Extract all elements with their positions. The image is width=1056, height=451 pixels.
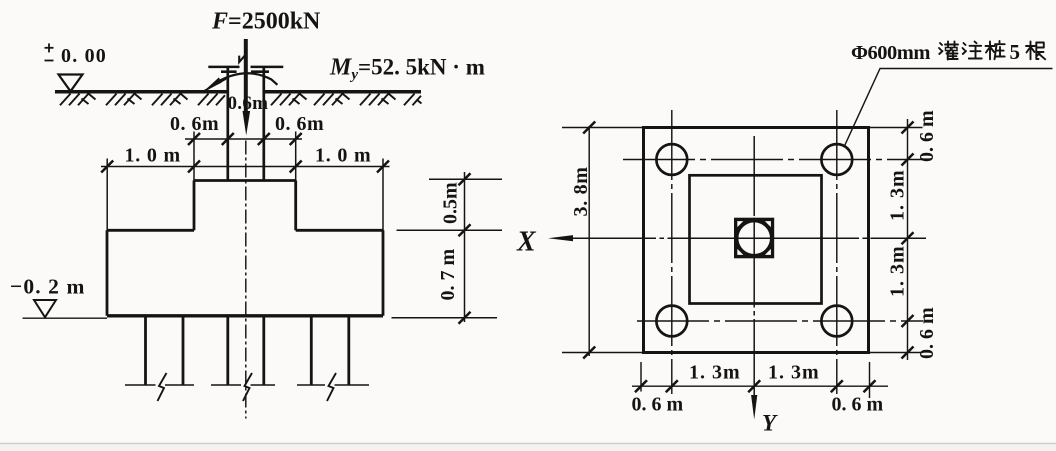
pile P2 right line — [262, 316, 265, 385]
X axis arrowhead — [548, 235, 573, 241]
pile column centerline left — [671, 110, 673, 394]
label Phi600mm pile note — [851, 40, 1020, 64]
pile row centerline bottom — [637, 320, 923, 322]
dims left figure — [101, 132, 390, 232]
hatch group — [60, 94, 71, 106]
pile row centerline top — [623, 159, 923, 161]
elevation triangle -0.2m — [34, 300, 56, 317]
svg-text:1. 3m: 1. 3m — [887, 245, 909, 297]
svg-text:0. 6m: 0. 6m — [275, 113, 324, 135]
svg-text:0. 6m: 0. 6m — [170, 113, 219, 135]
moment arc My — [216, 73, 278, 85]
pile P3 break line — [297, 384, 369, 386]
ground level line -0.2m — [23, 317, 108, 319]
hanzi zhuang — [986, 41, 1005, 59]
column corner chamfer BR — [765, 249, 771, 255]
column left line — [226, 67, 229, 181]
dim line 1.0m row — [101, 166, 390, 168]
extension pedestal left — [193, 132, 195, 182]
pedestal left side — [193, 181, 196, 231]
pile P1 left line — [144, 316, 147, 385]
ext top — [562, 127, 644, 129]
center line elevation — [245, 141, 247, 419]
svg-text:F=2500kN: F=2500kN — [211, 9, 321, 35]
center crosshair vertical — [753, 218, 755, 259]
svg-text:1. 3m: 1. 3m — [689, 362, 741, 384]
column top crossbar left — [221, 70, 237, 73]
center crosshair horizontal — [734, 237, 774, 239]
ext bottom-right — [869, 362, 871, 398]
pedestal and cap — [107, 181, 383, 316]
pile P3 break zigzag — [327, 373, 336, 401]
column corner chamfer TR — [765, 221, 771, 227]
leader underline — [880, 68, 1053, 70]
break mark on force line — [239, 55, 245, 62]
column corner chamfer TL — [737, 221, 743, 227]
pile P2 break zigzag — [243, 373, 252, 401]
svg-text:1. 0 m: 1. 0 m — [315, 145, 371, 167]
svg-text:Φ600mm: Φ600mm — [851, 42, 930, 64]
svg-text:1. 3m: 1. 3m — [887, 169, 909, 221]
ticks dim 0.6m — [188, 133, 200, 145]
svg-text:1. 0 m: 1. 0 m — [125, 145, 181, 167]
ground hatching — [60, 94, 422, 106]
elevation triangle — [59, 75, 83, 92]
ext bottom right — [869, 352, 923, 354]
svg-text:0. 7 m: 0. 7 m — [437, 249, 459, 301]
pile cap outline (plan) — [644, 128, 869, 353]
pile circle bottom-right — [821, 306, 852, 337]
dim line right — [907, 119, 909, 360]
svg-text:0. 00: 0. 00 — [61, 45, 107, 67]
force line — [244, 39, 248, 116]
column top T-bar right — [251, 66, 284, 69]
ext bottom-left — [640, 362, 642, 392]
ext bottom — [562, 352, 644, 354]
column corner chamfer BL — [737, 249, 743, 255]
svg-text:0. 6 m: 0. 6 m — [832, 394, 884, 416]
column top T-bar left — [208, 66, 239, 69]
hatch group — [271, 94, 282, 106]
hatch group — [106, 94, 117, 106]
cap upper step outline (plan) — [690, 175, 822, 303]
force arrowhead — [243, 111, 251, 136]
right side dims 0.5m / 0.7m — [392, 172, 503, 322]
elevation mark ±0.00 — [45, 43, 54, 60]
pile P1 break zigzag — [158, 373, 167, 401]
pedestal right side — [294, 181, 297, 231]
pile circle top-left — [656, 144, 687, 175]
pile P3 left line — [310, 316, 313, 385]
extension cap left — [106, 159, 108, 232]
hatch group — [314, 94, 325, 106]
column top crossbar right — [251, 70, 269, 73]
cap top right — [296, 229, 383, 232]
svg-text:3. 8m: 3. 8m — [570, 166, 592, 216]
pile circle top-right — [821, 144, 852, 175]
leader line to pile — [844, 69, 880, 148]
cap right side — [382, 230, 385, 315]
extension pedestal right — [295, 132, 297, 182]
cap top left — [107, 229, 194, 232]
svg-text:0. 6 m: 0. 6 m — [632, 394, 684, 416]
Y axis arrowhead — [751, 395, 757, 420]
svg-text:−0. 2 m: −0. 2 m — [10, 275, 86, 299]
pedestal top — [194, 179, 296, 182]
pile P1 break line — [125, 384, 194, 386]
pile P2 left line — [226, 316, 229, 385]
moment arrowhead — [204, 77, 222, 91]
ground line left — [55, 90, 228, 94]
svg-text:My=52. 5kN · m: My=52. 5kN · m — [329, 55, 485, 84]
moment arrow tail — [203, 79, 227, 92]
pile circle bottom-left — [656, 306, 687, 337]
hatch group — [152, 94, 163, 106]
center pile circle (white) — [738, 222, 770, 254]
svg-text:0.6m: 0.6m — [228, 93, 269, 114]
column section (black square) — [734, 218, 774, 259]
hanzi zhu — [963, 42, 982, 59]
dim texts left — [125, 93, 372, 167]
ticks dim 1.0m — [101, 161, 113, 173]
pile column centerline right — [836, 110, 838, 394]
cap bottom — [107, 314, 383, 317]
hanzi guan — [939, 42, 958, 60]
ticks row1 — [101, 133, 470, 324]
dim ticks plan — [583, 122, 913, 393]
svg-text:Y: Y — [762, 411, 778, 436]
extension cap right — [382, 159, 384, 232]
svg-text:0.5m: 0.5m — [440, 182, 462, 224]
cap left side — [106, 230, 109, 315]
hanzi gen — [1026, 42, 1045, 60]
piles elevation — [125, 316, 369, 401]
svg-text:5: 5 — [1010, 40, 1021, 64]
dim line bottom — [632, 385, 888, 387]
X axis line — [566, 237, 926, 239]
svg-text:X: X — [516, 227, 537, 258]
ground line right — [264, 90, 421, 94]
svg-text:0. 6 m: 0. 6 m — [916, 307, 938, 359]
bottom page edge line — [0, 443, 1056, 445]
svg-text:0. 6 m: 0. 6 m — [916, 110, 938, 162]
Y axis line — [753, 136, 755, 398]
column right line — [262, 67, 265, 181]
dim line 3.8m — [588, 126, 590, 356]
pile P3 right line — [347, 316, 350, 385]
ticks dims 0.5m 0.7m — [459, 173, 471, 185]
hatch group — [198, 94, 209, 106]
hatch group — [404, 94, 415, 106]
ext top right — [869, 127, 923, 129]
hatch group — [360, 94, 371, 106]
svg-text:1. 3m: 1. 3m — [768, 362, 820, 384]
pile P2 break line — [211, 384, 275, 386]
dim line 0.6m row — [185, 138, 302, 140]
pile P1 right line — [182, 316, 185, 385]
